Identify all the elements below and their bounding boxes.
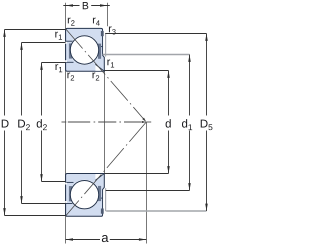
- label d2: [37, 119, 47, 130]
- right face extension line (B, top): [107, 3, 109, 26]
- label d1: [182, 119, 192, 130]
- label B: [83, 2, 89, 9]
- d reference line bottom: [104, 173, 168, 175]
- D5 reference line bottom (grey): [106, 210, 206, 212]
- label D2: [18, 120, 30, 131]
- a extension line (vertical, from contact point): [146, 122, 148, 244]
- d2 reference line bottom: [42, 181, 66, 183]
- contact line arrowhead: [142, 118, 147, 123]
- D2 reference line bottom: [22, 203, 66, 205]
- label r2 top-left: [68, 18, 75, 26]
- D reference line bottom: [5, 215, 66, 217]
- right main-face extension between blocks: [104, 71, 106, 173]
- D2 reference line top: [22, 42, 66, 44]
- D5 reference line top: [105, 33, 206, 35]
- D dimension line: [4, 30, 6, 116]
- label r1 left lower: [56, 64, 63, 72]
- bottom bearing block (mirrored): [65, 174, 106, 217]
- label r2 bottom-left: [67, 72, 74, 80]
- label a: [102, 235, 109, 242]
- label D5: [201, 120, 213, 131]
- D5 dimension line: [206, 34, 208, 116]
- d1 reference line top (grey): [103, 54, 190, 56]
- d reference line top: [104, 70, 168, 72]
- D2 dimension line: [21, 43, 23, 116]
- a dimension line: [66, 239, 100, 241]
- d2 reference line top: [42, 62, 66, 64]
- top bearing block: [65, 28, 106, 71]
- left face extension line: [65, 3, 67, 244]
- d2 dimension line: [41, 63, 43, 116]
- label r1 left upper: [55, 32, 62, 40]
- d1 dimension line: [189, 55, 191, 116]
- dimension B line: [63, 5, 79, 7]
- d dimension line: [168, 71, 170, 116]
- label D: [2, 120, 9, 128]
- white background: [0, 0, 214, 246]
- contact angle line (lower): [66, 122, 146, 216]
- label r4 top-right: [93, 18, 100, 26]
- D reference line top: [5, 29, 66, 31]
- d1 reference line bottom: [106, 190, 190, 192]
- label r2 bottom-right: [93, 72, 100, 80]
- label r1 right: [107, 59, 114, 67]
- contact angle line (dash-dot, upper): [66, 29, 147, 216]
- centre line (dash-dot): [62, 121, 152, 123]
- centreline arrowhead: [142, 121, 147, 123]
- label d: [166, 119, 171, 127]
- label r3: [109, 26, 116, 34]
